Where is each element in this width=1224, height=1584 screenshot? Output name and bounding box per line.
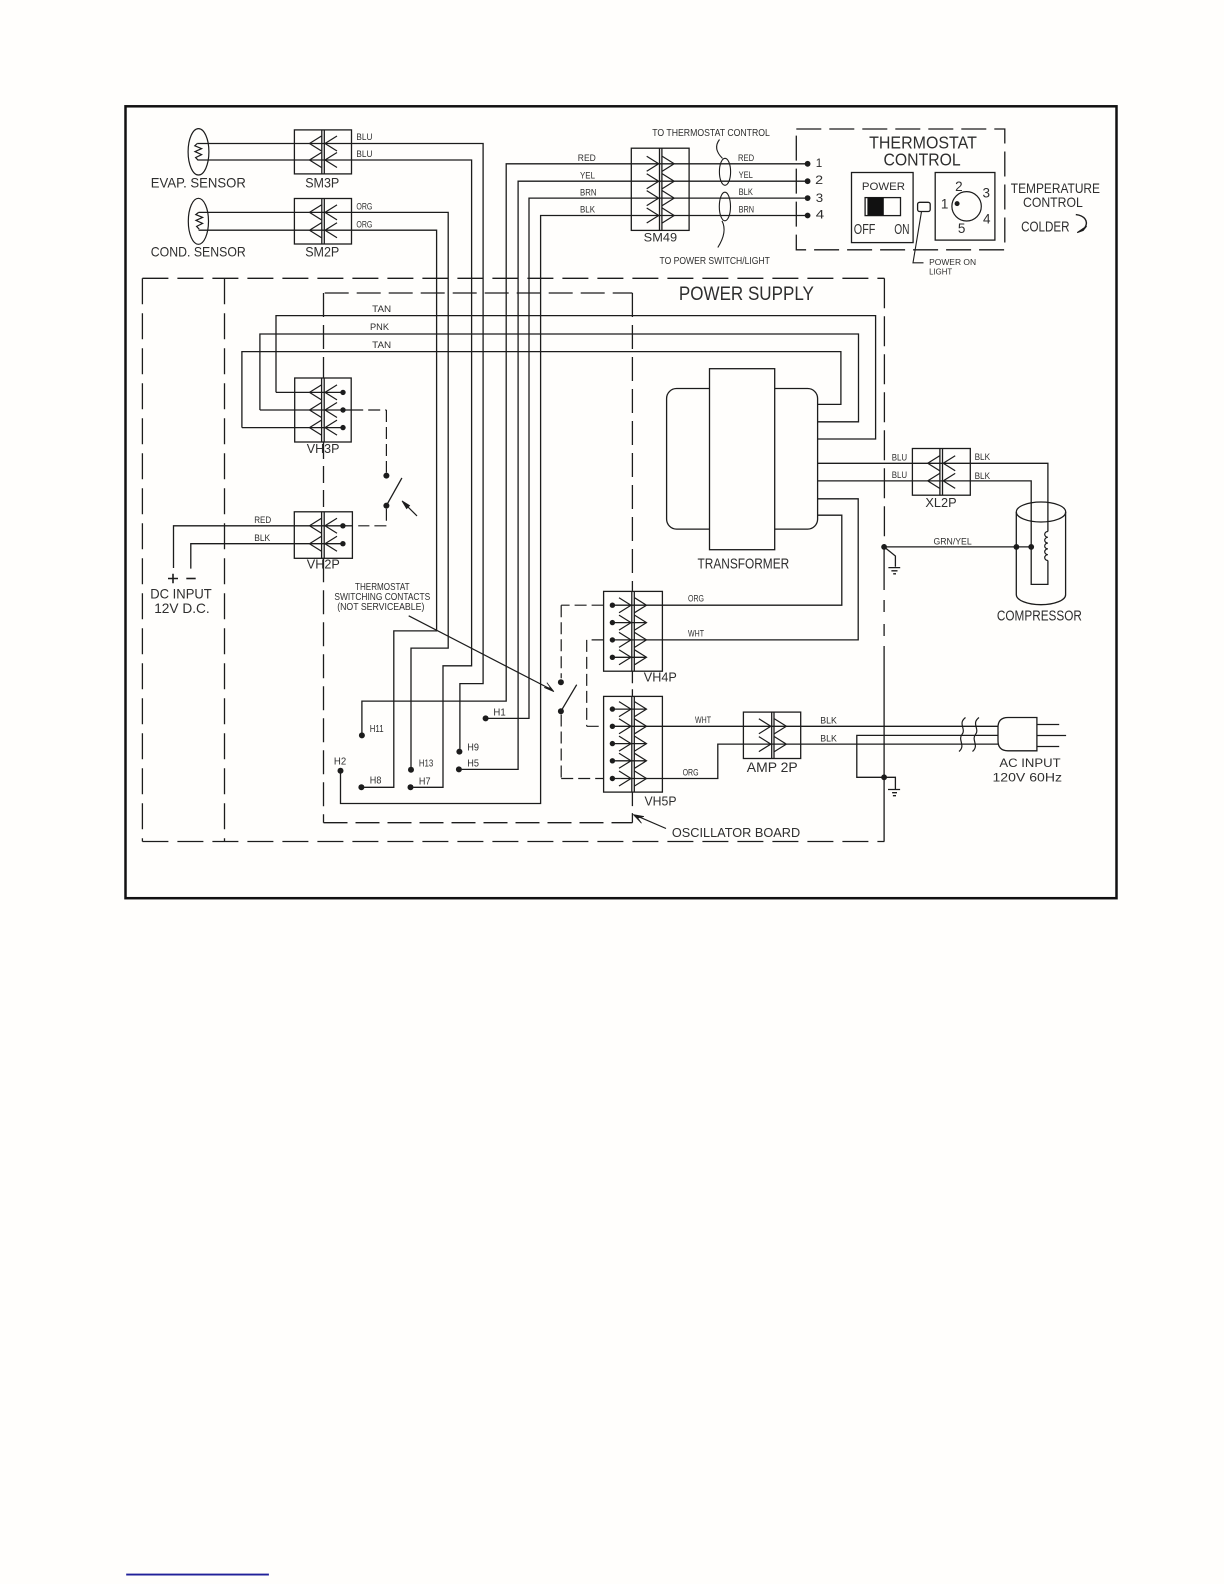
svg-text:ORG: ORG: [683, 767, 699, 778]
compressor winding (coil): [1045, 532, 1048, 561]
connector SM2P: [294, 199, 351, 245]
svg-text:H13: H13: [419, 758, 434, 770]
temperature dial circle: [952, 192, 981, 221]
wire RED SM49 pin1 to H11: [362, 164, 808, 733]
svg-text:AMP 2P: AMP 2P: [747, 759, 798, 775]
svg-text:1: 1: [816, 158, 823, 170]
svg-text:TO POWER SWITCH/LIGHT: TO POWER SWITCH/LIGHT: [660, 256, 771, 267]
svg-text:H11: H11: [370, 723, 384, 735]
slide switch knob (off position): [867, 198, 883, 216]
temperature dial pointer dot: [955, 201, 960, 206]
leader power on light: [913, 212, 924, 263]
node H7: [408, 784, 414, 790]
wire BLK DC input - to VH2P pin2: [191, 544, 343, 569]
switch SW1 thermostat contact (upper): [383, 473, 389, 479]
dashed box DC input section right edge: [224, 278, 226, 841]
svg-text:BLU: BLU: [356, 132, 372, 143]
leader curve to thermostat control: [717, 140, 723, 159]
switch SW2 thermostat contact (lower): [558, 679, 564, 685]
junction dot AC ground at bus: [881, 774, 887, 780]
svg-text:H9: H9: [467, 741, 479, 753]
node H13: [408, 767, 414, 773]
svg-text:XL2P: XL2P: [925, 495, 956, 510]
svg-text:ORG: ORG: [356, 202, 372, 213]
svg-text:BRN: BRN: [580, 187, 597, 198]
svg-text:YEL: YEL: [580, 170, 595, 181]
compressor M1 shell (cylinder): [1016, 502, 1065, 605]
terminal 2: [805, 178, 811, 184]
svg-text:H1: H1: [493, 707, 505, 719]
svg-text:4: 4: [816, 209, 825, 221]
dashed link switch SW2 to VH5P pin5: [561, 715, 603, 779]
svg-text:BLU: BLU: [356, 149, 372, 160]
wire BLK SM49 pin4 to H2: [341, 216, 808, 804]
transformer T1 body: [667, 389, 818, 530]
switch SW1 annotation arrow: [407, 506, 417, 516]
svg-text:TRANSFORMER: TRANSFORMER: [698, 557, 790, 573]
svg-text:BLK: BLK: [254, 533, 271, 544]
svg-text:2: 2: [815, 175, 823, 187]
svg-text:VH4P: VH4P: [644, 670, 677, 685]
svg-text:EVAP. SENSOR: EVAP. SENSOR: [151, 174, 246, 190]
connector VH3P: [295, 378, 352, 442]
connector VH2P: [294, 512, 352, 559]
dashed link VH4P pin3 to VH5P pin2: [587, 640, 604, 726]
svg-text:1: 1: [941, 196, 949, 211]
dashed link VH3P pin2 to switch SW1: [351, 410, 386, 473]
dashed line bottom edge shared DC-input / POWER SUPPLY box: [142, 841, 884, 843]
svg-text:H8: H8: [370, 775, 382, 787]
wire rows inside VH3P to pin dots: [295, 392, 352, 427]
svg-text:TEMPERATURE: TEMPERATURE: [1011, 181, 1100, 196]
pin dots VH5P: [610, 706, 615, 711]
power on light indicator: [918, 202, 931, 211]
svg-text:DC INPUT: DC INPUT: [150, 587, 212, 602]
pin dots VH2P: [340, 523, 345, 528]
wire BLU1 evap sensor to SM3P to H9: [197, 144, 483, 749]
svg-text:WHT: WHT: [688, 629, 704, 640]
bottom page rule (navy): [126, 1574, 269, 1576]
junction dot compressor winding: [1028, 544, 1034, 550]
svg-text:BLK: BLK: [975, 471, 991, 482]
cable break squiggle 1: [959, 718, 966, 752]
cable oval to power switch/light: [719, 192, 730, 221]
svg-text:BLU: BLU: [892, 452, 908, 463]
node H8: [358, 784, 364, 790]
svg-text:COMPRESSOR: COMPRESSOR: [997, 608, 1082, 624]
power switch S1 box: [852, 173, 914, 243]
svg-text:WHT: WHT: [695, 715, 711, 726]
svg-text:POWER ON: POWER ON: [929, 257, 976, 267]
wire WHT VH5P pin2 to AMP 2P pin1 and BLK to AC plug: [612, 725, 998, 727]
dashed link switch SW1 to VH2P pin1: [358, 509, 386, 526]
svg-text:BLK: BLK: [820, 734, 837, 745]
svg-text:5: 5: [958, 221, 966, 236]
cable oval to thermostat control: [719, 158, 730, 185]
svg-text:CONTROL: CONTROL: [1023, 195, 1083, 210]
pin stubs VH5P rows 1,3,4: [612, 709, 646, 761]
node H11: [359, 732, 365, 738]
connector SM3P: [294, 130, 351, 174]
dashed box THERMOSTAT CONTROL: [796, 129, 1005, 250]
svg-text:(NOT SERVICEABLE): (NOT SERVICEABLE): [337, 602, 424, 613]
svg-text:ORG: ORG: [688, 594, 704, 605]
svg-text:AC INPUT: AC INPUT: [999, 757, 1060, 770]
svg-text:VH3P: VH3P: [307, 441, 340, 456]
connector XL2P: [912, 449, 970, 496]
wire RED DC input + to VH2P pin1: [174, 526, 343, 568]
svg-text:SM3P: SM3P: [305, 175, 339, 190]
svg-text:POWER SUPPLY: POWER SUPPLY: [679, 284, 814, 305]
svg-text:H2: H2: [334, 756, 346, 768]
svg-text:3: 3: [816, 193, 823, 205]
svg-text:TO THERMOSTAT CONTROL: TO THERMOSTAT CONTROL: [652, 128, 770, 139]
DC input - terminal: [186, 578, 195, 580]
node H2: [338, 768, 344, 774]
wire YEL SM49 pin2 to H5: [462, 181, 808, 769]
wire BLU2 evap sensor to SM3P to H7: [198, 160, 472, 787]
svg-text:BLK: BLK: [975, 452, 991, 463]
junction dot ground bus / GRN-YEL: [881, 544, 887, 550]
svg-text:SM2P: SM2P: [305, 244, 339, 259]
svg-text:YEL: YEL: [739, 170, 753, 181]
leader curve to power switch/light: [718, 221, 724, 248]
pin dots VH3P: [340, 390, 345, 395]
dashed link VH4P pin1 to switch SW2: [561, 605, 603, 678]
svg-text:2: 2: [955, 179, 963, 194]
wire BRN SM49 pin3 to H1: [488, 198, 807, 718]
AC plug prongs: [1037, 725, 1066, 747]
wire ORG transformer to VH4P pin1: [612, 515, 841, 605]
cable break squiggle 2: [973, 718, 980, 752]
svg-text:120V 60Hz: 120V 60Hz: [993, 771, 1063, 784]
svg-text:RED: RED: [738, 153, 754, 164]
wire WHT transformer to VH4P pin3: [612, 499, 858, 640]
svg-text:12V D.C.: 12V D.C.: [154, 601, 210, 616]
wire AC ground lead to ground bus: [857, 735, 998, 777]
svg-text:CONTROL: CONTROL: [884, 149, 961, 169]
AC plug body: [998, 718, 1037, 751]
ground symbol at transformer (earth): [884, 547, 900, 574]
terminal 3: [805, 195, 811, 201]
wire TAN1 VH3P pin1 to transformer: [276, 391, 295, 393]
svg-text:BRN: BRN: [739, 204, 755, 215]
dashed right edge POWER SUPPLY box: [883, 278, 885, 546]
svg-text:BLK: BLK: [739, 187, 754, 198]
svg-text:VH5P: VH5P: [645, 793, 677, 808]
svg-text:OFF: OFF: [854, 222, 876, 238]
wire ORG2 cond sensor to SM2P to H8: [199, 230, 437, 787]
svg-text:ORG: ORG: [356, 219, 372, 230]
leader oscillator board arrow: [638, 816, 667, 828]
DC input + terminal: [168, 574, 178, 584]
wire BLU transformer to XL2P pin1 and BLK to compressor: [818, 463, 1048, 531]
wire GRN/YEL ground bus to compressor: [884, 546, 1031, 548]
dashed box OSCILLATOR BOARD: [325, 292, 633, 294]
svg-text:TAN: TAN: [372, 304, 391, 315]
svg-text:LIGHT: LIGHT: [929, 267, 953, 277]
node H1: [483, 715, 489, 721]
svg-text:BLK: BLK: [820, 716, 837, 727]
dashed box DC input section left edge: [141, 278, 143, 841]
connector VH5P: [604, 696, 663, 792]
svg-text:COLDER: COLDER: [1021, 220, 1070, 236]
connector SM49: [631, 148, 689, 230]
border frame of schematic sheet: [126, 106, 1117, 898]
slide switch body: [865, 198, 900, 216]
ground symbol at AC input (earth): [884, 777, 900, 795]
svg-text:RED: RED: [578, 153, 596, 164]
svg-text:BLU: BLU: [892, 470, 908, 481]
transformer T1 core: [710, 369, 775, 550]
svg-text:COND. SENSOR: COND. SENSOR: [151, 243, 246, 259]
svg-text:RED: RED: [254, 515, 271, 526]
svg-text:OSCILLATOR BOARD: OSCILLATOR BOARD: [672, 825, 800, 840]
terminal 1: [805, 161, 811, 167]
svg-text:3: 3: [983, 185, 991, 200]
svg-text:H7: H7: [419, 775, 431, 787]
svg-text:GRN/YEL: GRN/YEL: [934, 536, 972, 547]
connector AMP 2P: [743, 712, 800, 758]
leader from contacts label to switch SW2: [409, 616, 551, 690]
wire PNK VH3P pin2 to transformer: [260, 409, 295, 411]
connector VH4P: [604, 591, 663, 671]
wire ground bus vertical: [883, 547, 885, 842]
node H9: [456, 749, 462, 755]
colder rotation arrow: [1076, 215, 1087, 228]
node H5: [456, 766, 462, 772]
temperature dial box: [935, 173, 995, 241]
svg-text:PNK: PNK: [370, 322, 390, 333]
svg-text:POWER: POWER: [862, 181, 905, 193]
svg-text:BLK: BLK: [580, 205, 596, 216]
svg-text:SM49: SM49: [644, 231, 678, 245]
junction dot compressor shell: [1014, 544, 1020, 550]
wire TAN2 VH3P pin3 to transformer: [242, 427, 295, 429]
wire ORG1 cond sensor to SM2P to H13: [199, 212, 449, 767]
svg-text:VH2P: VH2P: [307, 556, 340, 571]
svg-text:4: 4: [983, 211, 991, 226]
svg-text:ON: ON: [894, 222, 909, 238]
pin dots VH4P: [610, 603, 615, 608]
wire ORG VH5P pin5 to AMP 2P pin2 and BLK to AC plug: [612, 744, 998, 778]
svg-text:H5: H5: [467, 758, 479, 770]
cond sensor (thermistor in oval): [188, 198, 208, 244]
pin stubs VH4P rows 2,4: [612, 623, 646, 658]
terminal 4: [805, 213, 811, 219]
dashed line top edge shared DC-input / POWER SUPPLY box: [142, 277, 884, 279]
svg-text:TAN: TAN: [372, 340, 391, 351]
evap sensor (thermistor in oval): [188, 129, 209, 175]
